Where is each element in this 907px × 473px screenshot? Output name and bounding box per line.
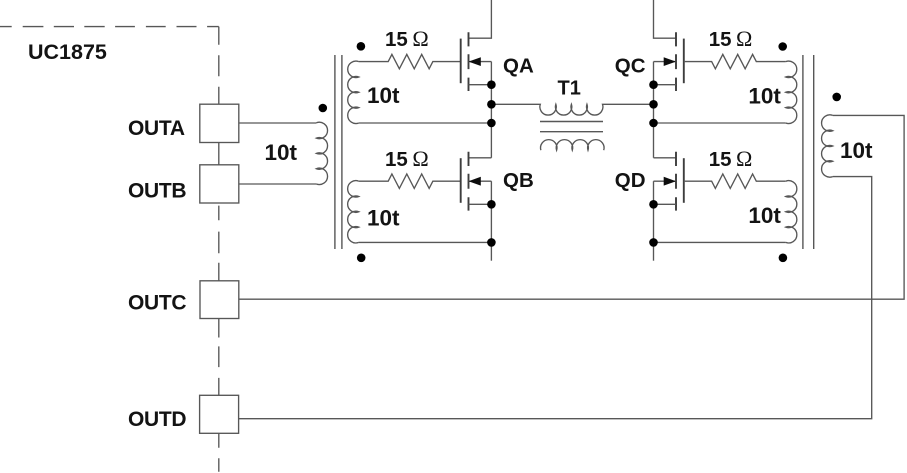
wire right leg QC source to QD drain [653, 62, 655, 158]
transistor QB mosfet [461, 152, 492, 211]
phase dot left primary [319, 104, 328, 113]
wire right lower secondary return to right leg [654, 241, 786, 243]
junction dot T1 left [487, 100, 496, 109]
wire right leg QD source down [653, 181, 655, 261]
transformer T1 core [540, 122, 603, 132]
IC UC1875 dashed outline top edge [0, 26, 219, 28]
pin OUTC terminal square [200, 281, 239, 319]
svg-text:15Ω: 15Ω [385, 26, 429, 51]
svg-text:OUTD: OUTD [128, 408, 186, 431]
wire OUTA to gate-drive transformer primary [239, 122, 317, 124]
wire lower secondary return to left leg [359, 241, 492, 243]
resistor R QD 15 ohm [684, 174, 786, 188]
svg-text:OUTB: OUTB [128, 179, 186, 202]
svg-text:15Ω: 15Ω [385, 146, 429, 171]
IC dashed edge below OUTD [218, 433, 220, 472]
svg-text:T1: T1 [558, 78, 581, 100]
junction dot QB source [487, 200, 496, 209]
phase dot right upper secondary [778, 42, 787, 51]
junction dot T1 right [649, 100, 658, 109]
right gate transformer primary winding 10t [822, 115, 833, 177]
svg-text:OUTA: OUTA [128, 117, 185, 140]
wire left leg QA source to QB drain [490, 62, 492, 158]
right gate transformer lower secondary winding 10t [786, 181, 797, 243]
svg-text:UC1875: UC1875 [28, 40, 107, 64]
junction dot QD source [649, 200, 658, 209]
svg-text:10t: 10t [367, 205, 400, 230]
junction dot lower-right secondary return [649, 238, 658, 247]
wire OUTB to gate-drive transformer primary [239, 183, 317, 185]
resistor R QC 15 ohm [684, 54, 786, 68]
svg-text:10t: 10t [265, 140, 298, 165]
junction dot upper-left secondary return [487, 119, 496, 128]
svg-text:QB: QB [503, 169, 534, 192]
phase dot right lower secondary [779, 253, 788, 262]
phase dot left upper secondary [357, 42, 366, 51]
IC dashed edge between OUTB and OUTC [218, 206, 220, 281]
svg-text:10t: 10t [748, 83, 781, 108]
IC dashed edge between OUTC and OUTD [218, 319, 220, 396]
svg-text:OUTC: OUTC [128, 291, 186, 314]
junction dot QA source [487, 80, 496, 89]
resistor R QA 15 ohm [359, 54, 461, 68]
phase dot left lower secondary [357, 253, 366, 262]
transformer T1 primary winding [491, 104, 653, 115]
left gate transformer upper secondary winding 10t [348, 61, 359, 123]
pin OUTA terminal square [200, 104, 239, 142]
junction dot lower-left secondary return [487, 238, 496, 247]
transistor QC mosfet [654, 0, 684, 91]
svg-text:QC: QC [615, 54, 646, 77]
svg-text:10t: 10t [367, 83, 400, 108]
transistor QA mosfet [461, 0, 492, 91]
svg-text:QD: QD [615, 169, 646, 192]
svg-text:10t: 10t [840, 138, 873, 163]
transistor QD mosfet [654, 152, 684, 211]
pin OUTB terminal square [200, 165, 239, 203]
svg-text:15Ω: 15Ω [709, 26, 753, 51]
left gate transformer core [335, 55, 342, 249]
junction dot upper-right secondary return [649, 119, 658, 128]
junction dot QC source [649, 80, 658, 89]
resistor R QB 15 ohm [359, 174, 461, 188]
right gate transformer upper secondary winding 10t [786, 61, 797, 123]
left gate transformer lower secondary winding 10t [348, 181, 359, 243]
svg-text:QA: QA [503, 54, 534, 77]
svg-text:15Ω: 15Ω [709, 146, 753, 171]
right gate transformer core [803, 55, 814, 249]
phase dot right primary [832, 93, 841, 102]
IC UC1875 dashed outline right edge upper segment [218, 27, 220, 105]
wire upper secondary return to left leg [359, 122, 492, 124]
wire left leg QB source down [490, 181, 492, 261]
svg-text:10t: 10t [748, 203, 781, 228]
pin OUTD terminal square [200, 395, 239, 433]
transformer T1 secondary winding [541, 140, 605, 151]
wire OUTD to right transformer primary bottom [239, 177, 872, 419]
wire right upper secondary return to right leg [654, 122, 786, 124]
left gate transformer primary winding 10t [316, 122, 327, 184]
wire OUTC to right transformer primary top [239, 115, 904, 299]
wire OUTA pin to OUTB pin [218, 143, 220, 165]
